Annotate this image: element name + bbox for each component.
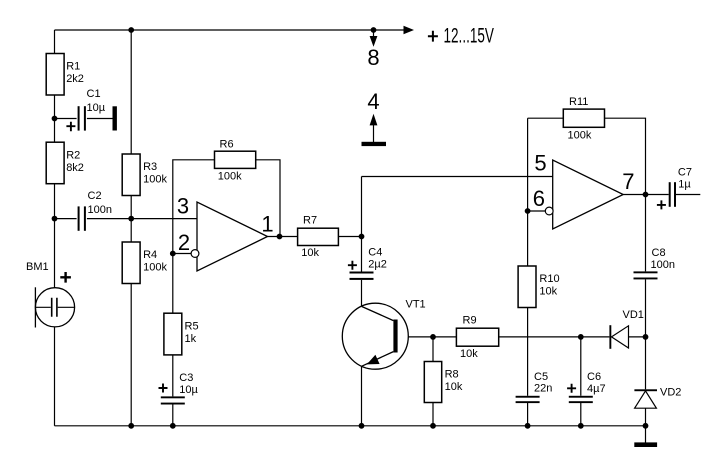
svg-text:R8: R8 <box>445 369 459 381</box>
svg-text:1: 1 <box>261 211 273 236</box>
svg-text:C3: C3 <box>179 372 193 384</box>
node R7 / C4 <box>359 234 365 240</box>
diode VD2 <box>634 387 681 409</box>
svg-text:10k: 10k <box>460 348 478 360</box>
wire top rail to R3 <box>130 30 132 154</box>
capacitor C3 <box>159 372 199 405</box>
wire bottom ground rail <box>55 425 646 427</box>
capacitor C7 <box>657 166 692 209</box>
wire R6 feedback loop <box>173 160 280 313</box>
svg-text:R4: R4 <box>143 249 157 261</box>
resistor R10 <box>518 266 559 308</box>
svg-text:R11: R11 <box>569 96 588 108</box>
resistor R4 <box>122 242 167 284</box>
svg-text:BM1: BM1 <box>26 261 49 273</box>
svg-text:22n: 22n <box>534 383 552 395</box>
svg-text:1k: 1k <box>185 333 197 345</box>
wire C3 to bottom rail <box>172 405 174 426</box>
pin 6 inverting bubble <box>545 207 553 215</box>
svg-text:6: 6 <box>533 186 545 211</box>
node R3-R4 / C2 <box>128 216 134 222</box>
svg-text:4: 4 <box>367 89 379 114</box>
ground bar C1 <box>113 106 117 130</box>
emitter arrow <box>367 355 380 365</box>
wire VT1 base to R9 <box>398 336 457 338</box>
resistor R6 <box>215 138 256 182</box>
wire R11 feedback loop <box>528 118 646 194</box>
node opamp1 output <box>277 234 283 240</box>
pin 4 ground arrow <box>370 114 378 142</box>
capacitor C6 <box>567 371 605 403</box>
svg-text:5: 5 <box>534 151 546 176</box>
svg-text:C4: C4 <box>368 247 382 259</box>
node bottom rail / C5 <box>525 423 531 429</box>
svg-text:2k2: 2k2 <box>66 73 84 85</box>
collector line <box>362 307 394 321</box>
wire node vertical to C4 <box>361 177 363 272</box>
resistor R1 <box>46 54 84 96</box>
wire top +V rail <box>55 29 409 31</box>
wire R8 to bottom rail <box>432 403 434 426</box>
resistor R11 <box>563 96 604 142</box>
wire R1 to R2 <box>54 95 56 142</box>
svg-text:R7: R7 <box>303 215 317 227</box>
node opamp2 output <box>643 192 649 198</box>
wire R7 to node <box>339 236 362 238</box>
svg-text:1µ: 1µ <box>678 179 691 191</box>
svg-text:C6: C6 <box>587 371 601 383</box>
node pin 2 / R5 <box>170 251 176 257</box>
pin 2 inverting bubble <box>191 250 199 258</box>
svg-text:2: 2 <box>178 230 190 255</box>
wire left rail top to R1 <box>54 30 56 54</box>
svg-text:C7: C7 <box>678 166 692 178</box>
wire C5 to bottom rail <box>527 403 529 426</box>
resistor R8 <box>424 362 463 403</box>
node bottom rail / VT1 emitter <box>359 423 365 429</box>
capacitor C1 <box>66 88 105 131</box>
svg-text:VD1: VD1 <box>623 309 644 321</box>
svg-text:R2: R2 <box>66 149 80 161</box>
node top rail / pin 8 <box>371 27 377 33</box>
wire R5 to C3 <box>172 355 174 397</box>
wire pin6 stub <box>528 210 546 212</box>
wire R4 to bottom rail <box>130 284 132 426</box>
wire C2 to pin3 <box>55 218 198 220</box>
svg-text:100k: 100k <box>143 174 167 186</box>
supply arrow head <box>404 26 415 35</box>
op-amp U1 section A <box>177 194 274 272</box>
pin 8 power arrow <box>370 30 378 47</box>
svg-text:100k: 100k <box>143 262 167 274</box>
resistor R3 <box>122 154 167 196</box>
resistor R7 <box>298 215 339 259</box>
emitter line <box>362 352 394 367</box>
svg-text:7: 7 <box>622 169 634 194</box>
base bar <box>393 320 397 353</box>
wire VT1 emitter to bottom rail <box>361 366 363 426</box>
node bottom rail / C6 <box>578 423 584 429</box>
svg-text:VT1: VT1 <box>406 299 426 311</box>
node bottom rail / ground <box>643 423 649 429</box>
svg-text:C8: C8 <box>652 247 666 259</box>
wire C1 branch <box>55 118 113 120</box>
node bottom rail / R8 <box>430 423 436 429</box>
wire opamp1 output to R7 <box>268 236 298 238</box>
resistor R2 <box>46 142 84 184</box>
svg-text:R6: R6 <box>220 138 234 150</box>
wire base node to R8 <box>432 337 434 362</box>
svg-text:8: 8 <box>367 45 379 70</box>
node C2 left <box>52 216 58 222</box>
wire R3 to R4 <box>130 196 132 243</box>
node bottom rail / R4 <box>128 423 134 429</box>
capacitor C8 <box>634 247 675 279</box>
node bottom rail / C3 <box>170 423 176 429</box>
wire R10 to C5 <box>527 308 529 396</box>
svg-text:10k: 10k <box>445 381 463 393</box>
svg-text:100k: 100k <box>218 170 242 182</box>
svg-text:R5: R5 <box>185 320 199 332</box>
wire R9 to VD1 <box>499 336 610 338</box>
svg-text:R9: R9 <box>463 315 477 327</box>
svg-text:100k: 100k <box>568 130 592 142</box>
node VD1 / C8 / VD2 <box>643 334 649 340</box>
svg-text:C2: C2 <box>88 190 102 202</box>
wire C6 branch <box>580 337 582 426</box>
wire opamp2 output to C7 <box>623 194 700 196</box>
node top rail / R3 branch <box>128 27 134 33</box>
op-amp U1 section B <box>533 151 635 230</box>
svg-text:C1: C1 <box>87 88 101 100</box>
node C6 / VD1 wire <box>578 334 584 340</box>
svg-text:10k: 10k <box>301 247 319 259</box>
node R1-R2 / C1 <box>52 116 58 122</box>
wire pin6 feedback vertical <box>527 118 529 266</box>
svg-text:C5: C5 <box>534 371 548 383</box>
svg-text:R3: R3 <box>143 161 157 173</box>
capacitor C4 <box>348 247 387 280</box>
svg-text:12...15V: 12...15V <box>444 24 494 48</box>
microphone BM1 <box>26 261 75 328</box>
wire bottom rail to ground <box>645 426 647 443</box>
wire C4 to VT1 collector <box>361 280 363 306</box>
svg-text:4µ7: 4µ7 <box>587 383 606 395</box>
svg-text:10µ: 10µ <box>87 102 106 114</box>
svg-text:100n: 100n <box>88 204 112 216</box>
net +12...15V label <box>428 24 494 48</box>
wire C8 node to VD2 <box>645 337 647 389</box>
svg-text:R10: R10 <box>539 273 559 285</box>
diode VD1 <box>609 309 644 349</box>
wire C2 node to BM1 <box>54 219 56 288</box>
wire R2 to C2 node <box>54 184 56 219</box>
svg-text:R1: R1 <box>66 61 80 73</box>
transistor VT1 <box>342 299 425 370</box>
svg-text:8k2: 8k2 <box>66 162 84 174</box>
wire pin2 stub <box>173 253 191 255</box>
wire BM1 to bottom rail <box>54 327 56 426</box>
resistor R9 <box>456 315 498 360</box>
svg-text:3: 3 <box>177 194 189 219</box>
capacitor C5 <box>516 371 553 403</box>
capacitor C2 <box>78 190 112 231</box>
svg-text:100n: 100n <box>651 259 675 271</box>
wire VD2 to bottom rail <box>645 408 647 426</box>
resistor R5 <box>164 313 199 355</box>
node pin 6 / R10 <box>525 208 531 214</box>
wire VD1 to C8 node <box>629 336 646 338</box>
svg-text:10µ: 10µ <box>179 384 198 396</box>
node VT1 base / R8 / R9 <box>430 334 436 340</box>
wire C8 vertical <box>645 195 647 337</box>
ground bar bottom right <box>634 442 657 447</box>
svg-text:2µ2: 2µ2 <box>368 259 387 271</box>
svg-text:10k: 10k <box>539 286 557 298</box>
wire node to pin5 <box>362 176 553 178</box>
ground bar pin 4 <box>362 142 387 146</box>
svg-text:VD2: VD2 <box>660 387 681 399</box>
